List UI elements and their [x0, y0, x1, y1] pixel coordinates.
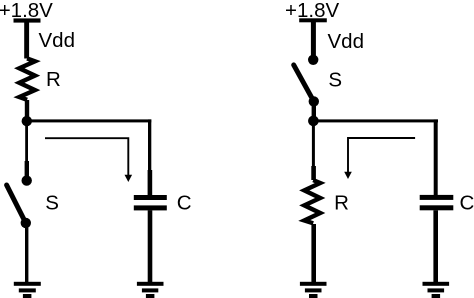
svg-text:S: S: [328, 68, 342, 91]
svg-text:Vdd: Vdd: [39, 29, 75, 52]
wire junction to capacitor branch (left): [27, 119, 151, 122]
switch S bottom contact dot (left): [21, 218, 31, 228]
wire junction to resistor (right): [312, 124, 315, 168]
wire junction to capacitor branch (right): [313, 119, 438, 122]
wire capacitor top lead (left): [148, 119, 151, 171]
wire supply stem (right): [311, 22, 316, 57]
switch S bottom contact dot (right): [309, 96, 319, 106]
capacitor C plates (right): [420, 195, 454, 200]
wire resistor to junction (left): [25, 100, 29, 117]
switch S top contact dot (right): [308, 55, 318, 65]
node junction dot (left): [22, 116, 32, 126]
current arrow (left): [45, 138, 128, 175]
svg-text:C: C: [460, 192, 474, 215]
svg-text:R: R: [334, 191, 349, 214]
svg-text:S: S: [45, 191, 59, 214]
ground below capacitor (left): [137, 282, 164, 286]
switch S top contact dot (left): [22, 175, 32, 185]
wire capacitor bottom lead (right): [433, 210, 438, 282]
current arrow (right): [348, 138, 415, 173]
wire junction to switch (left): [25, 124, 28, 162]
wire switch to junction (right): [312, 104, 316, 117]
wire switch to ground (left): [25, 227, 28, 282]
capacitor C plates (left): [134, 195, 167, 200]
wire resistor to ground (right): [311, 224, 316, 282]
power supply bar Vdd (left): [14, 18, 41, 22]
resistor R (right): [304, 180, 320, 223]
wire capacitor top lead (right): [434, 119, 438, 195]
svg-text:C: C: [177, 192, 192, 215]
ground below capacitor (right): [423, 282, 450, 286]
wire capacitor bottom lead (left): [148, 210, 153, 282]
power supply bar Vdd (right): [299, 18, 327, 22]
switch S blade (left): [7, 185, 26, 223]
svg-text:Vdd: Vdd: [328, 30, 364, 53]
ground below resistor (right): [300, 282, 327, 286]
switch S blade (right): [294, 65, 314, 102]
ground below switch (left): [14, 282, 41, 286]
svg-text:R: R: [46, 68, 61, 91]
wire supply stem (left): [24, 22, 29, 59]
resistor R (left): [19, 58, 35, 99]
node junction dot (right): [308, 116, 319, 127]
